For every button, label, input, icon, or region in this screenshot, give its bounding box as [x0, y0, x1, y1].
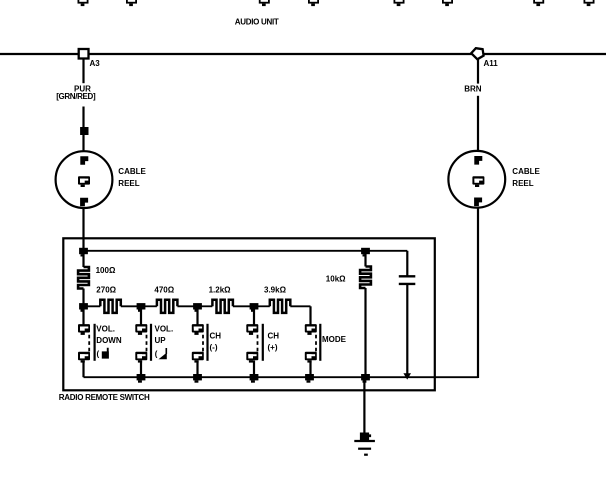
junction: S4 at bottom bus	[250, 374, 259, 383]
radio remote switch box outline	[63, 238, 435, 390]
wire: node C down to S3	[196, 306, 198, 324]
resistor R5 3.9kohm	[254, 305, 270, 307]
wire: node A down to S1	[82, 306, 84, 324]
wire: right cable reel down to ground bus	[477, 208, 479, 379]
svg-text:AUDIO UNIT: AUDIO UNIT	[235, 18, 279, 27]
resistor R3 470ohm	[141, 305, 157, 307]
S4 top terminal	[246, 324, 258, 335]
svg-text:CABLE: CABLE	[512, 167, 540, 176]
svg-text:UP: UP	[155, 336, 167, 345]
wire: audio unit horizontal bus	[0, 53, 606, 55]
wire: S1 down to bottom bus	[82, 361, 84, 378]
S2 bottom terminal	[135, 352, 147, 363]
junction: S3 at bottom bus	[193, 374, 202, 383]
junction: S5 at bottom bus	[305, 374, 314, 383]
cable reel (right) bottom terminal	[474, 198, 482, 207]
svg-text:270Ω: 270Ω	[96, 285, 116, 294]
wire: top bus down to R6	[364, 251, 366, 267]
cable reel (left) top terminal	[80, 156, 88, 165]
capacitor C1	[399, 251, 416, 380]
S5 contact dashed link	[315, 335, 317, 352]
svg-text:REEL: REEL	[118, 179, 139, 188]
audio unit connector cavity pin 7	[533, 0, 544, 6]
S4 actuator bar	[262, 324, 264, 361]
S1 actuator bar	[93, 324, 95, 361]
svg-text:CH: CH	[210, 332, 222, 341]
wire: ladder end down to S5	[309, 306, 311, 324]
resistor R1 100ohm	[78, 267, 89, 289]
junction: left column meets internal top bus	[79, 248, 88, 257]
wire: A11 down to wire-color label	[477, 59, 479, 84]
wire: S2 down to bottom bus	[140, 361, 142, 378]
svg-text:100Ω: 100Ω	[96, 266, 116, 275]
C1 bottom plate	[399, 283, 416, 285]
audio unit connector cavity pin 5	[394, 0, 405, 6]
cable reel (right) inner terminal	[472, 176, 484, 187]
wire: S5 down to bottom bus	[309, 361, 311, 378]
wire: top bus down to C1	[406, 251, 408, 277]
svg-text:[GRN/RED]: [GRN/RED]	[56, 92, 96, 101]
resistor R6 10kohm	[360, 267, 371, 289]
wire: R1 to ladder node A	[82, 289, 84, 307]
wire: C1 down to bottom bus	[406, 285, 408, 375]
audio unit connector cavity pin 3	[259, 0, 270, 6]
wire: left cable reel down into switch box	[82, 208, 84, 251]
junction: top bus to resistor R6	[361, 248, 370, 257]
svg-text:(+): (+)	[268, 343, 278, 352]
cable reel (right) body	[448, 151, 505, 208]
svg-text:DOWN: DOWN	[96, 336, 122, 345]
cable reel (left) inner terminal	[78, 176, 90, 187]
hand icon (press down)	[102, 348, 109, 359]
connector terminal A11	[471, 48, 483, 59]
S5 actuator bar	[319, 324, 321, 361]
svg-text:(: (	[97, 350, 100, 359]
connector terminal A3	[79, 49, 89, 59]
svg-text:10kΩ: 10kΩ	[326, 274, 346, 283]
svg-text:BRN: BRN	[464, 84, 482, 93]
S3 bottom terminal	[192, 352, 204, 363]
svg-text:MODE: MODE	[322, 335, 347, 344]
svg-text:CABLE: CABLE	[118, 167, 146, 176]
terminal wedge at capacitor foot	[403, 373, 411, 379]
S2 actuator bar	[150, 324, 152, 361]
cable reel (left) body	[56, 151, 113, 208]
wire: inline connector to left cable reel	[82, 135, 84, 156]
audio unit connector cavity pin 4	[308, 0, 319, 6]
svg-text:3.9kΩ: 3.9kΩ	[264, 285, 287, 294]
node C (ladder junction 3)	[193, 303, 202, 312]
svg-text:(: (	[155, 350, 158, 359]
wire: S3 down to bottom bus	[196, 361, 198, 378]
audio unit connector cavity pin 1	[78, 0, 89, 6]
svg-text:A3: A3	[90, 59, 101, 68]
svg-text:VOL.: VOL.	[96, 325, 115, 334]
svg-text:VOL.: VOL.	[155, 325, 174, 334]
switch S1 VOL.DOWN	[78, 306, 122, 377]
hand icon (press up)	[159, 353, 167, 360]
node D (ladder junction 4)	[250, 303, 259, 312]
svg-text:RADIO REMOTE SWITCH: RADIO REMOTE SWITCH	[59, 393, 150, 402]
S3 top terminal	[192, 324, 204, 335]
S3 actuator bar	[206, 324, 208, 361]
S1 bottom terminal	[78, 352, 90, 363]
svg-text:A11: A11	[484, 59, 499, 68]
junction: ground tap at bottom bus	[361, 374, 370, 383]
svg-text:(-): (-)	[210, 343, 218, 352]
node B (ladder junction 2)	[137, 303, 146, 312]
S5 top terminal	[305, 324, 317, 335]
S1 top terminal	[78, 324, 90, 335]
wire: junction down to resistor R1	[82, 251, 84, 267]
wire: bottom bus down to ground	[363, 377, 365, 433]
inline connector on PUR wire	[80, 127, 88, 135]
wire: BRN wire down to right cable reel	[477, 96, 479, 156]
S2 top terminal	[135, 324, 147, 335]
S1 contact dashed link	[88, 335, 90, 352]
svg-text:CH: CH	[268, 332, 280, 341]
switch S3 CH(-)	[192, 306, 221, 377]
svg-text:470Ω: 470Ω	[154, 285, 174, 294]
cable reel (left) bottom terminal	[80, 198, 88, 207]
wire: node D down to S4	[253, 306, 255, 324]
svg-text:REEL: REEL	[512, 179, 533, 188]
wire: internal top bus	[84, 250, 408, 252]
wire: node B down to S2	[140, 306, 142, 324]
junction: S2 at bottom bus	[137, 374, 146, 383]
ground	[354, 433, 375, 455]
wire: R6 down to bottom bus	[364, 288, 366, 377]
audio unit connector cavity pin 2	[126, 0, 137, 6]
switch S4 CH(+)	[246, 306, 279, 377]
resistor R2 270ohm	[84, 305, 101, 307]
audio unit connector cavity pin 8	[584, 0, 595, 6]
svg-text:1.2kΩ: 1.2kΩ	[209, 285, 232, 294]
audio unit connector cavity pin 6	[442, 0, 453, 6]
wire: PUR wire down to inline connector	[82, 107, 84, 129]
S4 bottom terminal	[246, 352, 258, 363]
wire: S4 down to bottom bus	[253, 361, 255, 378]
wire: bottom bus	[84, 376, 479, 378]
S5 bottom terminal	[305, 352, 317, 363]
S4 contact dashed link	[257, 335, 259, 352]
S2 contact dashed link	[146, 335, 148, 352]
wire: A3 down to wire-color label	[82, 59, 84, 84]
S3 contact dashed link	[202, 335, 204, 352]
switch S2 VOL.UP	[135, 306, 173, 377]
cable reel (right) top terminal	[474, 156, 482, 165]
C1 top plate	[399, 275, 416, 277]
node A (ladder junction 1)	[79, 303, 88, 312]
switch S5 MODE	[305, 306, 347, 377]
resistor R4 1.2kohm	[198, 305, 213, 307]
